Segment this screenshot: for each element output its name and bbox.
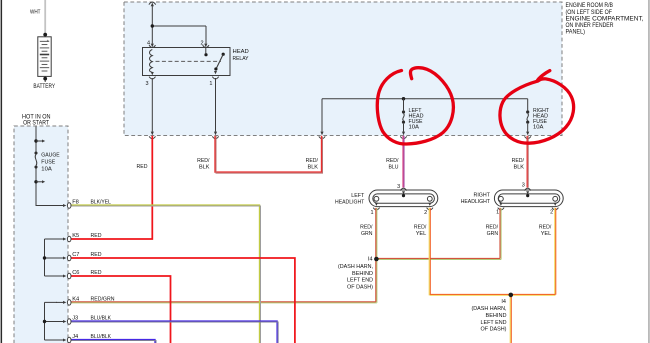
svg-text:HEAD: HEAD bbox=[233, 49, 249, 55]
jumper bracket K5-C7-C6 bbox=[43, 239, 57, 276]
left headlight pin 1 bbox=[371, 203, 380, 217]
svg-text:1: 1 bbox=[371, 210, 374, 216]
label RED/BLK (riser) bbox=[306, 158, 319, 171]
right headlight bbox=[494, 190, 563, 207]
svg-text:BLU/BLK: BLU/BLK bbox=[91, 334, 112, 340]
head relay label bbox=[233, 49, 249, 62]
svg-text:LEFT END: LEFT END bbox=[481, 320, 507, 326]
svg-text:J3: J3 bbox=[72, 316, 78, 322]
wire RED/GRN left headlight pin1 down through I4 to K4 bbox=[70, 208, 376, 302]
node I4 junction (second) bbox=[509, 293, 514, 298]
svg-text:BLK: BLK bbox=[514, 164, 525, 170]
svg-text:F8: F8 bbox=[72, 200, 79, 206]
wire RED C6 to bottom bbox=[70, 276, 171, 343]
svg-text:OF DASH): OF DASH) bbox=[347, 284, 373, 290]
svg-text:K5: K5 bbox=[72, 233, 79, 239]
svg-text:BLK: BLK bbox=[308, 164, 319, 170]
right headlight pin 2 bbox=[550, 203, 558, 216]
connector pin J3 bbox=[56, 316, 111, 325]
svg-text:BEHIND: BEHIND bbox=[352, 271, 373, 277]
svg-text:HOT IN ON: HOT IN ON bbox=[22, 114, 51, 120]
left headlight pin 3 bbox=[397, 184, 407, 197]
svg-text:RED/: RED/ bbox=[512, 158, 525, 164]
wire fuse feed riser at x=322 bbox=[319, 99, 325, 139]
label RED/BLU bbox=[386, 158, 399, 171]
wire relay pin1 down to box edge bbox=[212, 78, 218, 139]
svg-text:RELAY: RELAY bbox=[233, 56, 249, 62]
jumper bracket K4-J3-J4 bbox=[43, 302, 57, 340]
battery bbox=[38, 33, 51, 82]
relay switch bbox=[204, 48, 224, 75]
connector pin C6 bbox=[56, 270, 102, 279]
left headlight pin 2 bbox=[424, 203, 433, 217]
wire BLU/BLK J3 to bottom bbox=[70, 321, 277, 343]
connector pin K4 bbox=[56, 296, 115, 305]
svg-text:(DASH HARN,: (DASH HARN, bbox=[338, 264, 373, 270]
svg-text:I4: I4 bbox=[368, 256, 373, 262]
svg-text:4: 4 bbox=[147, 41, 150, 47]
svg-text:RED/: RED/ bbox=[539, 225, 552, 231]
label RED/BLK (right fuse) bbox=[512, 158, 525, 171]
node branch 2 bbox=[34, 180, 45, 183]
svg-text:PANEL): PANEL) bbox=[566, 29, 586, 36]
page border left bbox=[1, 0, 2, 343]
svg-text:HEADLIGHT: HEADLIGHT bbox=[335, 199, 365, 205]
wire RED/YEL I4 down to bottom bbox=[509, 295, 511, 343]
svg-text:FUSE: FUSE bbox=[41, 160, 55, 166]
svg-text:RED/: RED/ bbox=[306, 158, 319, 164]
connector pin J4 bbox=[56, 334, 111, 343]
wire fuse feed bus bbox=[322, 98, 528, 100]
gauge fuse 10A bbox=[34, 151, 37, 168]
svg-text:10A: 10A bbox=[533, 125, 544, 131]
svg-text:RED/: RED/ bbox=[414, 225, 427, 231]
annotation red circle around left head fuse bbox=[377, 68, 453, 144]
engine room R/B dashed box bbox=[124, 2, 562, 136]
svg-text:3: 3 bbox=[146, 81, 149, 87]
hot-in-on label bbox=[22, 114, 51, 126]
connector pin F8 bbox=[56, 200, 111, 209]
connector pin K5 bbox=[56, 233, 102, 242]
svg-text:C7: C7 bbox=[72, 252, 79, 258]
svg-text:RED/: RED/ bbox=[386, 158, 399, 164]
svg-text:RED/GRN: RED/GRN bbox=[91, 296, 115, 302]
wire RED/BLK right fuse to right headlight pin3 bbox=[526, 136, 528, 188]
right headlight pin 3 bbox=[522, 182, 531, 197]
svg-text:RED: RED bbox=[91, 270, 102, 276]
right headlight label bbox=[461, 193, 491, 206]
svg-text:BLK: BLK bbox=[199, 164, 210, 170]
head relay box bbox=[143, 48, 231, 76]
relay pin 2 bbox=[201, 41, 209, 48]
svg-text:10A: 10A bbox=[41, 167, 52, 173]
svg-text:YEL: YEL bbox=[541, 231, 552, 237]
svg-text:HEADLIGHT: HEADLIGHT bbox=[461, 199, 491, 205]
svg-text:GAUGE: GAUGE bbox=[41, 152, 60, 158]
hot-in-on-or-start dashed box bbox=[14, 126, 68, 343]
label RED/YEL (left) bbox=[414, 225, 427, 238]
gauge fuse label bbox=[41, 152, 60, 172]
svg-text:BATTERY: BATTERY bbox=[33, 84, 55, 90]
right headlight pin 1 bbox=[496, 203, 504, 216]
page border right bbox=[648, 0, 649, 343]
annotation red circle around right head fuse bbox=[500, 71, 574, 144]
svg-text:K4: K4 bbox=[72, 296, 79, 302]
svg-text:OR START: OR START bbox=[23, 121, 49, 127]
svg-text:1: 1 bbox=[209, 81, 212, 87]
svg-text:LEFT: LEFT bbox=[351, 193, 364, 199]
wire feed into engine box (node to relay pins 4 and 2) bbox=[149, 2, 206, 43]
label RED/YEL (right) bbox=[539, 225, 552, 238]
svg-text:RIGHT: RIGHT bbox=[474, 193, 491, 199]
svg-text:10A: 10A bbox=[409, 125, 420, 131]
svg-text:BLU/BLK: BLU/BLK bbox=[91, 316, 112, 322]
svg-text:(DASH HARN,: (DASH HARN, bbox=[472, 306, 507, 312]
svg-text:WHT: WHT bbox=[30, 10, 41, 16]
label RED/BLK (pin1) bbox=[197, 158, 210, 171]
wire BLK/YEL F8 to bottom bbox=[70, 205, 260, 343]
wire RED C7 to bottom bbox=[70, 258, 295, 343]
label RED/GRN (left) bbox=[360, 225, 373, 238]
wire gauge fuse feed bbox=[36, 127, 59, 206]
engine room R/B label bbox=[566, 2, 644, 35]
svg-text:YEL: YEL bbox=[416, 231, 427, 237]
relay coil-switch dashed link bbox=[156, 60, 222, 62]
svg-text:J4: J4 bbox=[72, 334, 78, 340]
left headlight bbox=[369, 190, 438, 207]
node fuse bus junction bbox=[402, 97, 405, 100]
node I4 junction (left) bbox=[374, 257, 379, 262]
wire relay pin3 down to box edge bbox=[149, 78, 155, 139]
svg-text:RED: RED bbox=[137, 164, 148, 170]
relay coil bbox=[150, 50, 153, 73]
svg-text:BLK/YEL: BLK/YEL bbox=[91, 200, 111, 206]
svg-text:RED/: RED/ bbox=[360, 225, 373, 231]
wire RED/BLK relay pin1 to fuse riser bbox=[215, 136, 322, 172]
svg-text:2: 2 bbox=[550, 210, 553, 216]
svg-text:I4: I4 bbox=[501, 299, 506, 305]
svg-text:C6: C6 bbox=[72, 270, 79, 276]
label RED/GRN (right) bbox=[486, 225, 499, 238]
relay pin 3 bbox=[146, 77, 156, 87]
wire RED/BLU left fuse to left headlight pin3 bbox=[402, 136, 404, 188]
left head fuse 10A bbox=[400, 99, 406, 139]
label I4 (left) bbox=[338, 256, 373, 290]
svg-text:LEFT END: LEFT END bbox=[347, 278, 373, 284]
svg-text:RED: RED bbox=[91, 252, 102, 258]
svg-text:RED/: RED/ bbox=[197, 158, 210, 164]
svg-text:RED/: RED/ bbox=[486, 225, 499, 231]
relay pin 4 bbox=[147, 41, 156, 48]
wire RED relay pin3 to K5 bbox=[70, 136, 152, 239]
label I4 (second) bbox=[472, 299, 507, 332]
wire BLU/BLK J4 to bottom bbox=[70, 340, 155, 343]
node branch 1 bbox=[34, 139, 45, 142]
svg-text:3: 3 bbox=[522, 182, 525, 188]
right head fuse 10A bbox=[525, 99, 531, 139]
svg-text:OF DASH): OF DASH) bbox=[481, 327, 507, 333]
svg-text:1: 1 bbox=[496, 210, 499, 216]
svg-text:GRN: GRN bbox=[361, 231, 373, 237]
wire RED/YEL left headlight pin2 to I4 (second) bbox=[429, 208, 555, 296]
svg-text:BLU: BLU bbox=[389, 164, 399, 170]
connector pin C7 bbox=[56, 252, 102, 261]
svg-text:3: 3 bbox=[397, 184, 400, 190]
wire RED/GRN I4 branch to right headlight pin1 bbox=[376, 208, 500, 259]
wire WHT battery feed bbox=[30, 0, 45, 34]
svg-text:BEHIND: BEHIND bbox=[486, 313, 507, 319]
relay pin 1 bbox=[209, 77, 218, 87]
svg-text:RED: RED bbox=[91, 233, 102, 239]
left head fuse label bbox=[409, 108, 424, 131]
svg-text:GRN: GRN bbox=[487, 231, 499, 237]
left headlight label bbox=[335, 193, 365, 206]
svg-text:2: 2 bbox=[201, 41, 204, 47]
right head fuse label bbox=[533, 108, 550, 131]
svg-text:2: 2 bbox=[424, 210, 427, 216]
